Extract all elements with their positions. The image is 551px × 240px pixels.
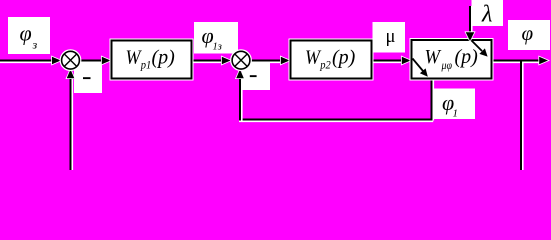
wire: input φз into junction 1 [0,57,61,65]
svg-text:1: 1 [453,108,459,120]
svg-text:μφ: μφ [441,58,453,72]
block W_μφ(p) [412,40,492,79]
summing junction 1 [62,51,80,69]
block W_p2(p) [291,41,372,79]
node label box: feedback φ1 [433,89,475,120]
wire: inner feedback φ1 up into junction 2 [236,69,244,121]
svg-text:φ: φ [20,21,32,46]
wire: junction 1 to Wp1 [79,57,110,65]
node label box: output φ [508,20,550,50]
wire: output φ from Wμφ [492,57,549,65]
block W_p1(p) [112,41,192,79]
node label box: φ1з [194,22,238,54]
node label box: μ [373,22,406,53]
arrow: λ path diagonal inside Wμφ [472,41,488,57]
wire: inner feedback φ1 down from Wμφ [432,79,434,121]
summing junction 2 [232,51,250,69]
svg-text:(p): (p) [332,47,356,69]
wire: Wp2 to Wμφ (μ signal) [372,57,411,65]
svg-text:(p): (p) [455,46,479,68]
arrow: μ path diagonal inside Wμφ [413,59,428,77]
svg-text:(p): (p) [152,47,176,69]
minus sign at summing junction 1 [74,63,102,93]
svg-text:з: з [32,38,38,52]
svg-text:p1: p1 [140,58,151,72]
wire: Wp1 to junction 2 (φ1з) [192,57,231,65]
svg-text:1з: 1з [213,42,222,53]
svg-text:W: W [425,46,443,68]
node label box: λ [472,0,504,28]
svg-text:μ: μ [386,27,396,47]
wire: output branch down (outer feedback) [521,61,523,171]
wire: junction 2 to Wp2 [250,57,290,65]
minus sign at summing junction 2 [242,62,270,90]
node label box: setpoint φз [8,17,50,54]
arrow: λ disturbance into top of Wμφ [466,6,475,41]
svg-text:φ: φ [522,21,534,45]
svg-text:λ: λ [481,2,492,28]
wire: inner feedback φ1 horizontal run [239,120,433,122]
wire: outer feedback up into junction 1 [67,69,75,170]
svg-text:p2: p2 [319,58,330,72]
